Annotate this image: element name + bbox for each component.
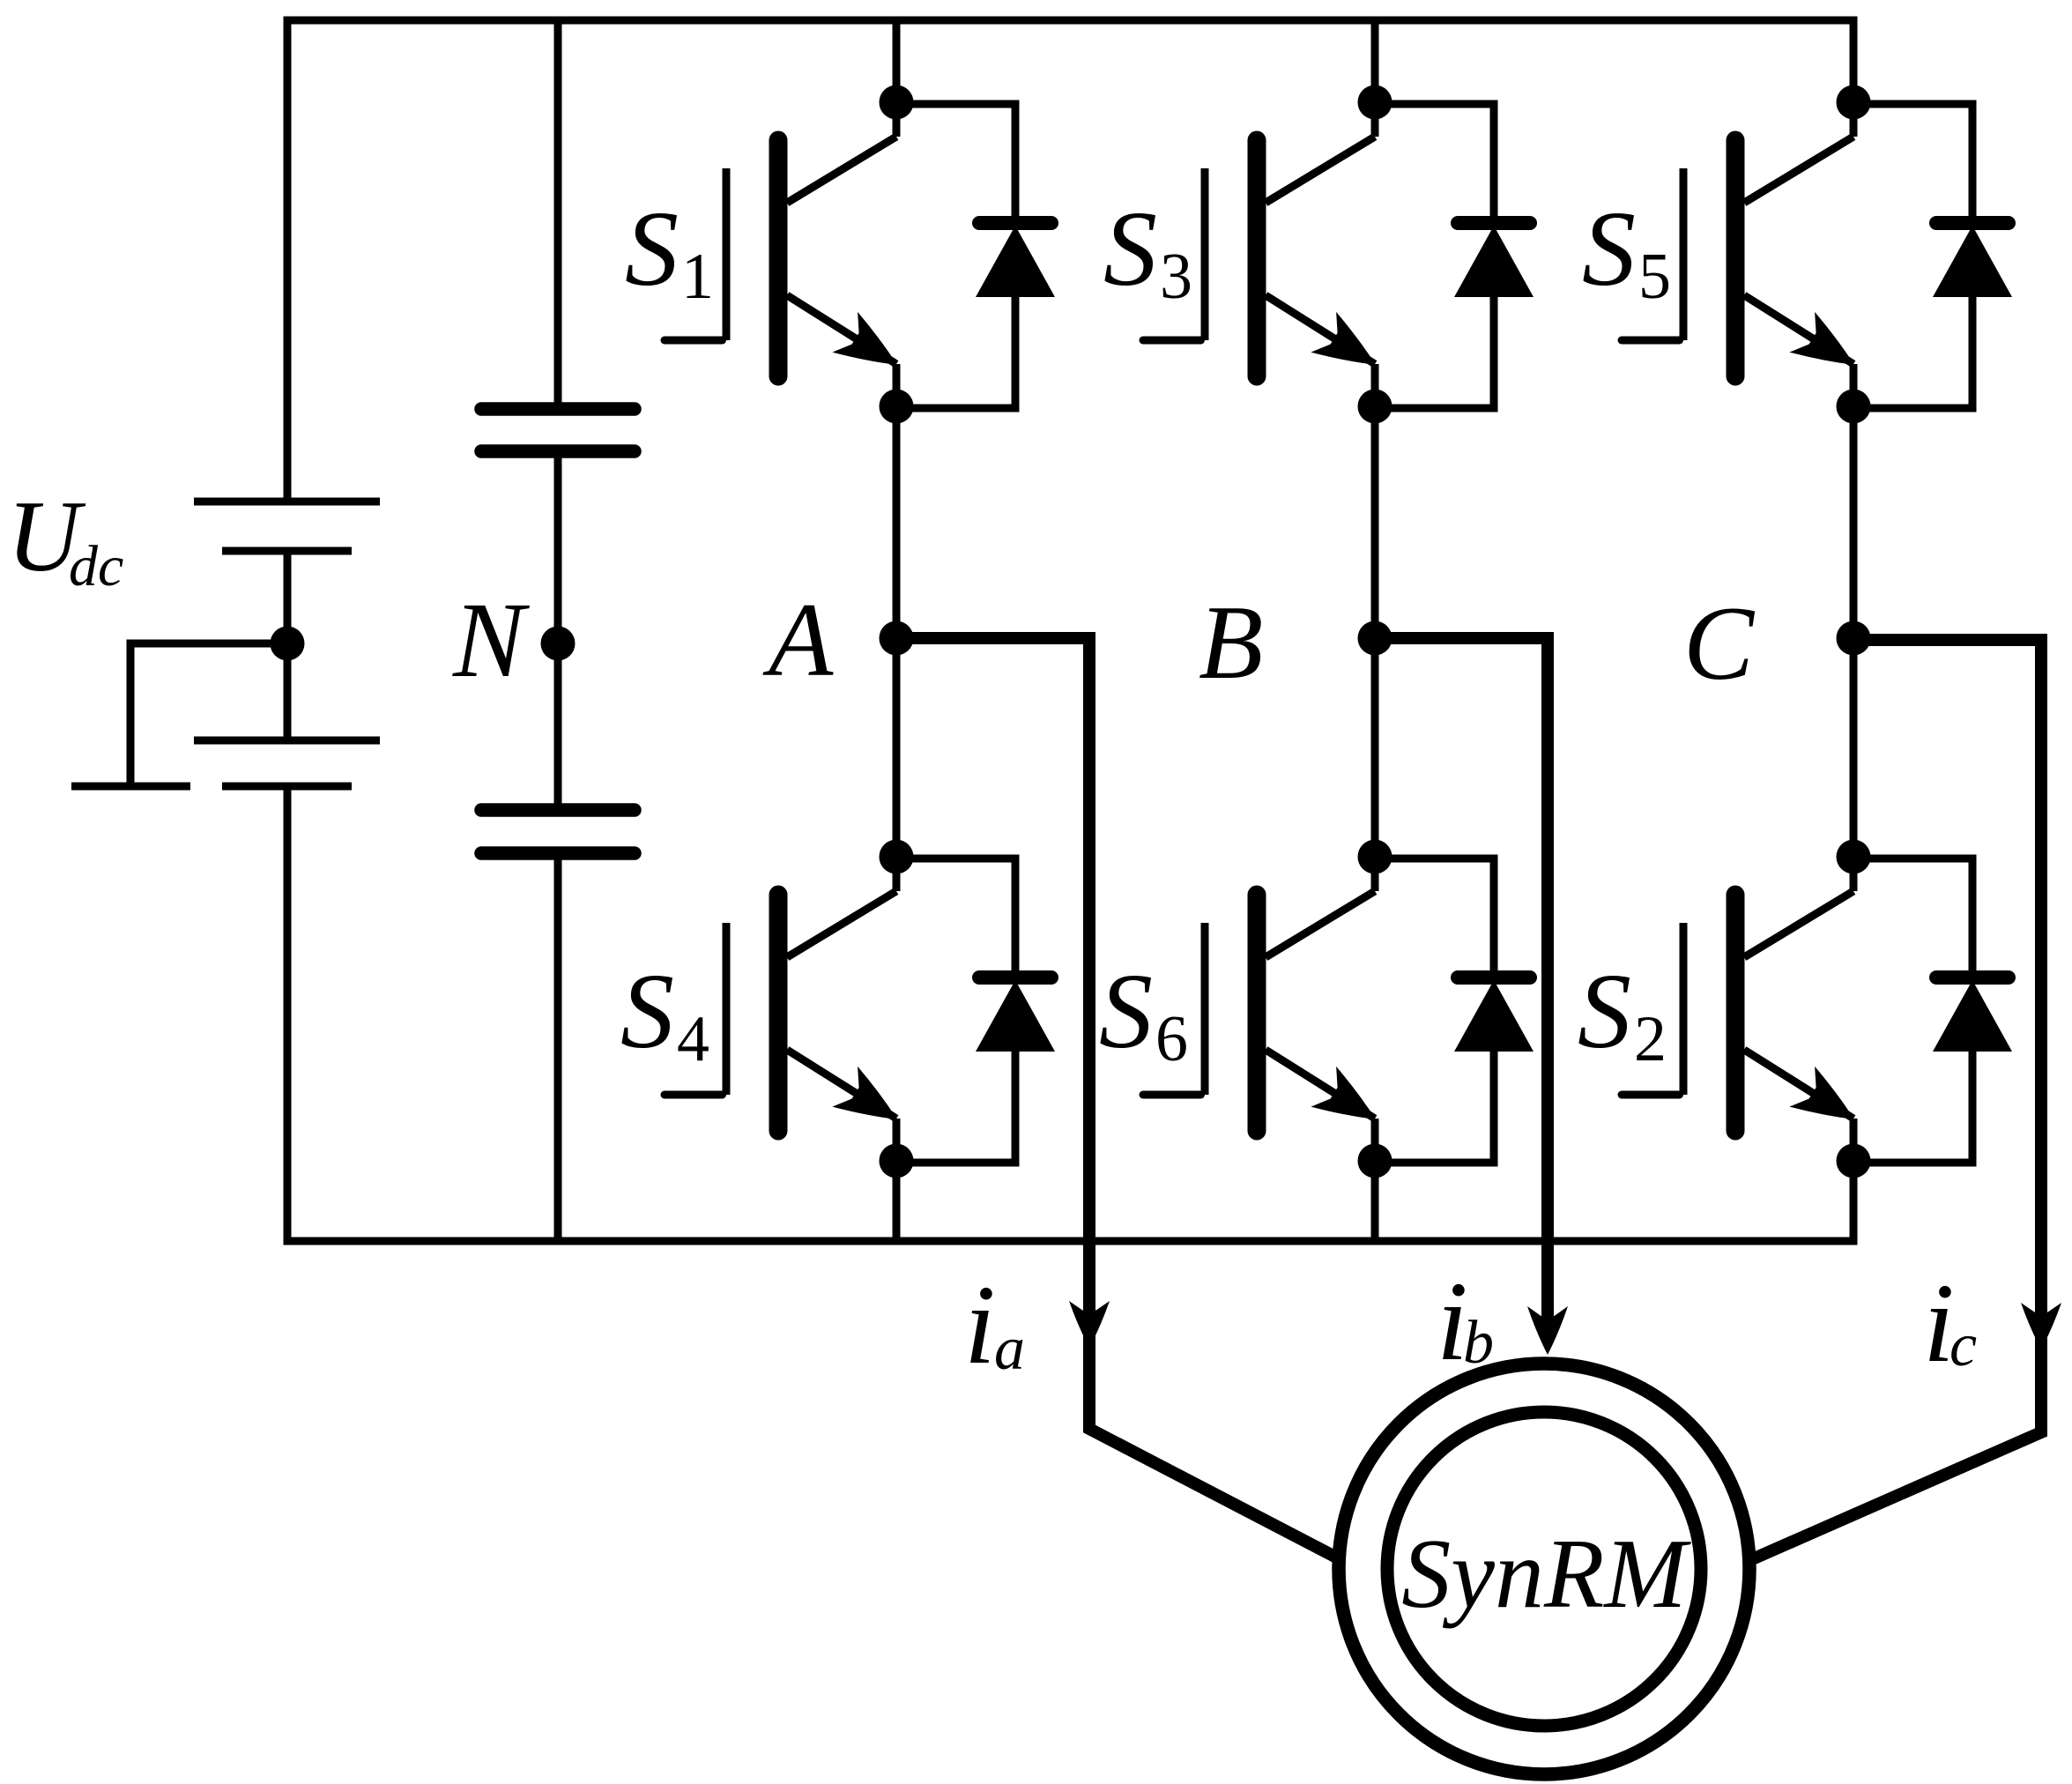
svg-text:2: 2 xyxy=(1634,1003,1667,1075)
node top dot of S6 xyxy=(1358,840,1392,874)
svg-text:5: 5 xyxy=(1638,241,1671,313)
svg-text:S: S xyxy=(1103,190,1157,308)
node top dot of S4 xyxy=(880,840,914,874)
battery U_dc cell2 short plate xyxy=(222,783,352,791)
svg-text:i: i xyxy=(964,1262,996,1387)
wire B-leg upper (rail to S3) xyxy=(1371,17,1379,103)
wire battery to bottom rail xyxy=(284,786,292,1241)
wire C-leg upper (rail to S5) xyxy=(1850,17,1858,103)
svg-text:S: S xyxy=(1578,952,1631,1071)
svg-text:S: S xyxy=(625,190,679,308)
arrow i_a xyxy=(1069,1301,1110,1348)
wire B-leg middle (S3 to S6) xyxy=(1371,406,1379,857)
svg-text:c: c xyxy=(1949,1312,1977,1379)
arrow i_c xyxy=(2021,1303,2061,1349)
svg-text:a: a xyxy=(994,1315,1025,1383)
node A output dot xyxy=(880,621,914,656)
capacitor C1 bottom plate xyxy=(481,444,635,458)
wire A-leg middle (S1 to S4) xyxy=(893,406,901,857)
motor SynRM outer circle xyxy=(1339,1364,1749,1774)
svg-text:B: B xyxy=(1199,584,1263,701)
motor SynRM inner circle xyxy=(1387,1412,1701,1726)
transistor S4 (IGBT) xyxy=(893,857,901,891)
capacitor C1 top plate xyxy=(481,402,635,416)
transistor S6 (IGBT) xyxy=(1371,857,1379,891)
svg-text:4: 4 xyxy=(677,1003,709,1075)
battery tap end plate xyxy=(71,783,190,791)
node top dot of S5 xyxy=(1837,85,1871,120)
diode of S5 (freewheeling) xyxy=(1853,100,1972,108)
node top dot of S2 xyxy=(1837,840,1871,874)
svg-text:S: S xyxy=(620,952,674,1071)
wire capacitor column middle xyxy=(554,451,562,810)
capacitor C2 bottom plate xyxy=(481,846,635,860)
node bottom dot of S2 xyxy=(1837,1144,1871,1178)
node bottom dot of S6 xyxy=(1358,1144,1392,1178)
arrow i_b xyxy=(1527,1306,1568,1355)
transistor S2 (IGBT) xyxy=(1850,857,1858,891)
diode of S4 (freewheeling) xyxy=(896,855,1015,863)
svg-text:C: C xyxy=(1683,584,1756,702)
svg-text:1: 1 xyxy=(681,241,714,313)
wire phase C output (thick) xyxy=(1744,640,2041,1563)
wire battery tap bracket horizontal xyxy=(130,640,287,648)
node top dot of S3 xyxy=(1358,85,1392,120)
diode of S6 (freewheeling) xyxy=(1375,855,1494,863)
wire left DC rail (positive) xyxy=(284,20,292,502)
wire bottom DC rail (negative) xyxy=(284,1238,1858,1245)
svg-text:dc: dc xyxy=(69,534,123,598)
wire A-leg upper (rail to S1) xyxy=(893,17,901,103)
diode of S3 (freewheeling) xyxy=(1375,100,1494,108)
node bottom dot of S1 xyxy=(880,390,914,424)
svg-text:3: 3 xyxy=(1160,241,1192,313)
transistor S1 (IGBT) xyxy=(893,102,901,137)
node bottom dot of S5 xyxy=(1837,390,1871,424)
battery U_dc cell1 long plate xyxy=(194,498,380,506)
node bottom dot of S4 xyxy=(880,1144,914,1178)
wire phase B output (thick) xyxy=(1375,638,1548,1324)
transistor S5 (IGBT) xyxy=(1850,102,1858,137)
node battery midpoint dot xyxy=(271,627,305,661)
battery U_dc cell2 long plate xyxy=(194,737,380,745)
node B output dot xyxy=(1358,621,1392,656)
svg-text:A: A xyxy=(762,581,834,698)
svg-text:N: N xyxy=(452,581,531,700)
wire C-leg lower (S2 to bottom rail) xyxy=(1850,1161,1858,1245)
wire phase A output (thick) xyxy=(896,638,1347,1563)
node C output dot xyxy=(1837,621,1871,656)
diode of S2 (freewheeling) xyxy=(1853,855,1972,863)
wire capacitor column top xyxy=(554,20,562,409)
node bottom dot of S3 xyxy=(1358,390,1392,424)
battery U_dc cell1 short plate xyxy=(222,547,352,555)
wire capacitor column bottom xyxy=(554,853,562,1241)
diode of S1 (freewheeling) xyxy=(896,100,1015,108)
svg-text:6: 6 xyxy=(1155,1003,1188,1075)
wire C-leg middle (S5 to S2) xyxy=(1850,406,1858,857)
wire battery tap bracket vertical xyxy=(127,640,135,787)
svg-text:S: S xyxy=(1582,190,1636,308)
node N dot xyxy=(541,627,576,661)
svg-text:SynRM: SynRM xyxy=(1401,1520,1691,1629)
capacitor C2 top plate xyxy=(481,803,635,817)
node top dot of S1 xyxy=(880,85,914,120)
wire A-leg lower (S4 to bottom rail) xyxy=(893,1161,901,1245)
wire B-leg lower (S6 to bottom rail) xyxy=(1371,1161,1379,1245)
transistor S3 (IGBT) xyxy=(1371,102,1379,137)
svg-text:S: S xyxy=(1099,952,1153,1071)
wire battery mid segment xyxy=(284,551,292,740)
wire top DC rail xyxy=(284,17,1858,25)
